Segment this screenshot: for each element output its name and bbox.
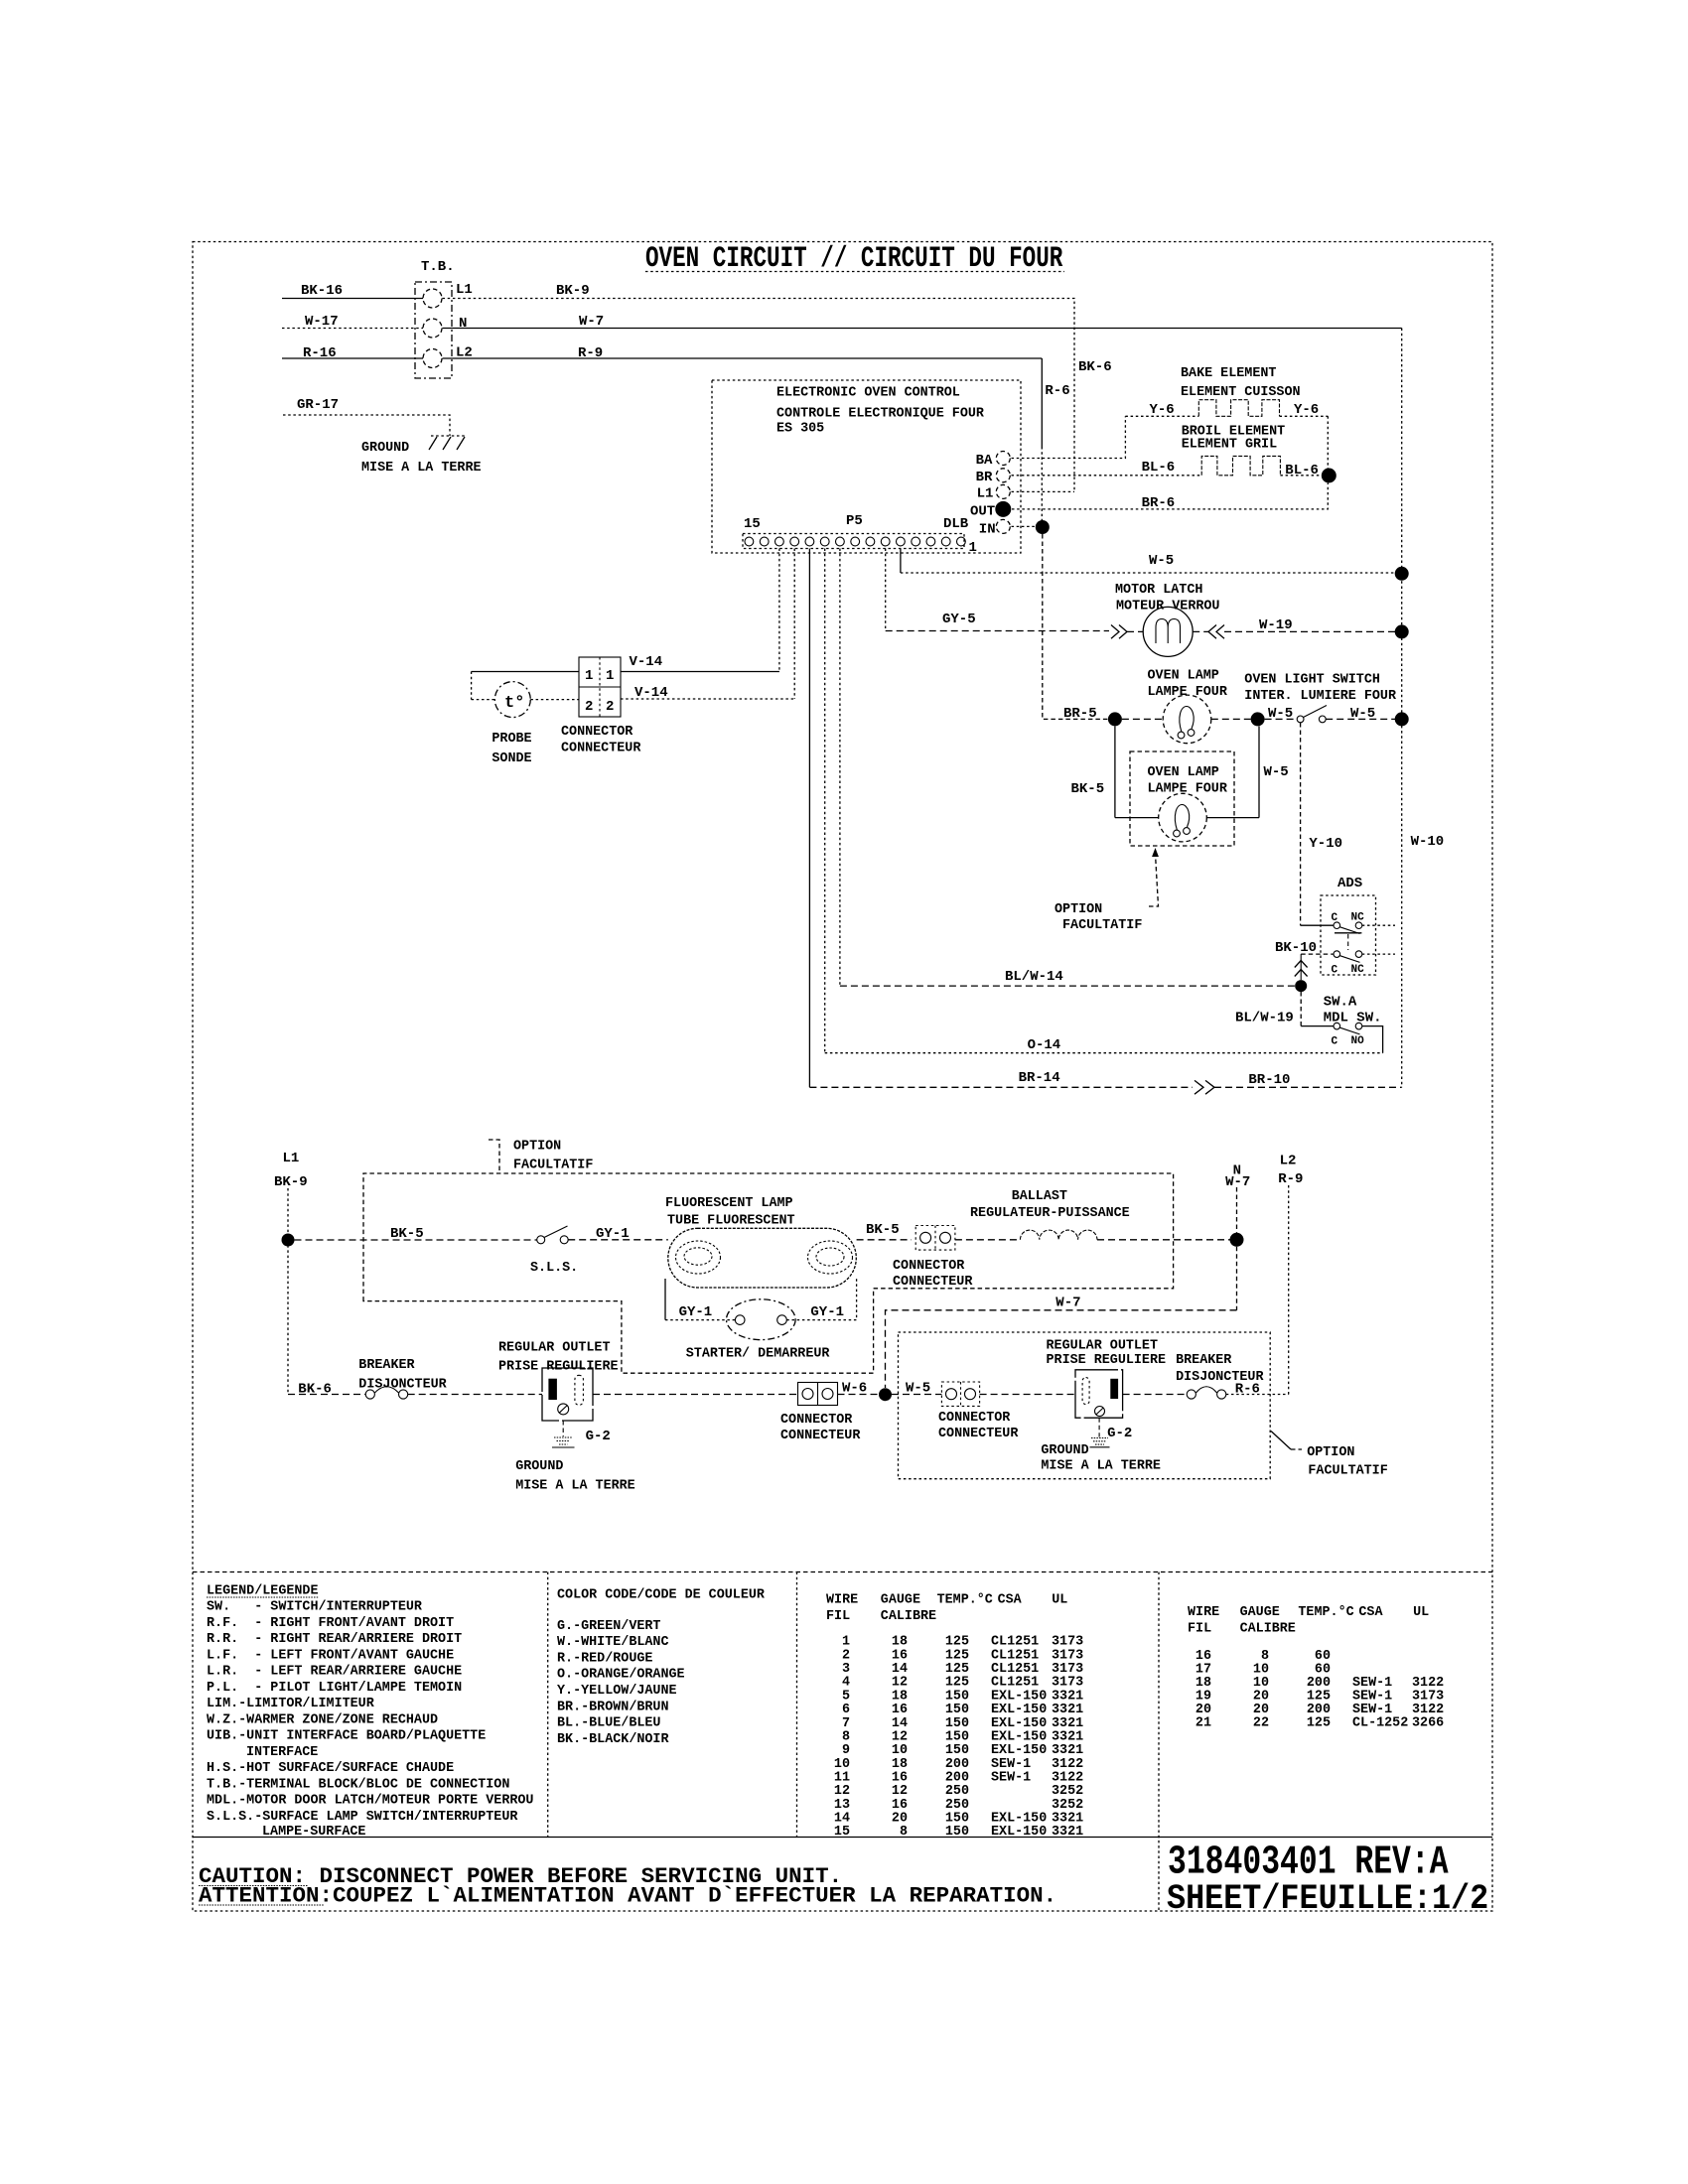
- terminal block T.B.: [415, 259, 473, 378]
- regular outlet 2 REGULAR OUTLET / PRISE REGULIERE: [1047, 1339, 1167, 1419]
- svg-text:PROBE: PROBE: [492, 732, 531, 747]
- svg-text:BK-5: BK-5: [866, 1222, 900, 1238]
- svg-text:T.B.: T.B.: [421, 259, 455, 275]
- svg-text:2: 2: [585, 699, 593, 715]
- svg-text:CONNECTOR: CONNECTOR: [561, 725, 633, 740]
- option label OPTION / FACULTATIF (upper): [489, 1140, 593, 1173]
- wire gauge table 1: [826, 1593, 1067, 1625]
- svg-text:MDL SW.: MDL SW.: [1324, 1011, 1382, 1026]
- svg-text:BALLAST: BALLAST: [1012, 1189, 1067, 1204]
- svg-text:W-7: W-7: [1055, 1296, 1080, 1311]
- connector 1 CONNECTOR / CONNECTEUR: [780, 1383, 861, 1444]
- fluorescent lamp FLUORESCENT LAMP / TUBE FLUORESCENT: [665, 1196, 856, 1288]
- wire BK-16: [282, 283, 423, 299]
- svg-text:BA: BA: [976, 453, 993, 469]
- oven lamp 2 (option) OVEN LAMP / LAMPE FOUR: [1130, 751, 1234, 846]
- svg-text:CONNECTEUR: CONNECTEUR: [780, 1429, 861, 1443]
- svg-text:MDL.-MOTOR DOOR LATCH/MOTEUR P: MDL.-MOTOR DOOR LATCH/MOTEUR PORTE VERRO…: [207, 1794, 533, 1809]
- wire ADS NC to W-10: [1362, 924, 1395, 926]
- door latch switch SW.A MDL SW.: [1301, 995, 1382, 1053]
- ADS switch 1 (C-NC): [1332, 912, 1365, 951]
- svg-text:GROUND: GROUND: [515, 1459, 563, 1474]
- svg-text:R.-RED/ROUGE: R.-RED/ROUGE: [557, 1651, 652, 1666]
- legend text LEGEND/LEGENDE: [207, 1584, 533, 1841]
- wire W-19 from latch to W-10: [1193, 617, 1395, 638]
- svg-text:GAUGE: GAUGE: [1240, 1605, 1280, 1620]
- color code table COLOR CODE/CODE DE COULEUR: [557, 1588, 766, 1747]
- svg-text:IN: IN: [979, 522, 996, 538]
- svg-text:21: 21: [1196, 1716, 1211, 1731]
- junction node BL/W-14: [1295, 980, 1307, 992]
- svg-text:P5: P5: [846, 513, 863, 529]
- svg-text:3266: 3266: [1412, 1716, 1444, 1731]
- relay ADS: [1321, 876, 1376, 975]
- svg-text:V-14: V-14: [630, 654, 663, 670]
- svg-text:Y-6: Y-6: [1150, 402, 1175, 418]
- svg-text:BK-6: BK-6: [1078, 359, 1112, 375]
- svg-text:GROUND: GROUND: [1041, 1443, 1088, 1458]
- sheet number 318403401 REV:A: [1168, 1840, 1449, 1885]
- wire GY-1: [568, 1226, 668, 1242]
- svg-text:W.-WHITE/BLANC: W.-WHITE/BLANC: [557, 1635, 669, 1650]
- svg-text:CALIBRE: CALIBRE: [1240, 1622, 1296, 1637]
- svg-text:PRISE REGULIERE: PRISE REGULIERE: [498, 1360, 619, 1375]
- svg-text:SONDE: SONDE: [492, 751, 531, 766]
- svg-text:Y-6: Y-6: [1294, 402, 1319, 418]
- svg-text:W-5: W-5: [1149, 553, 1174, 569]
- svg-text:Y.-YELLOW/JAUNE: Y.-YELLOW/JAUNE: [557, 1684, 677, 1699]
- svg-text:W-17: W-17: [305, 314, 339, 330]
- svg-text:REGULAR OUTLET: REGULAR OUTLET: [1047, 1339, 1159, 1354]
- broil element BROIL ELEMENT / ELEMENT GRIL: [1012, 425, 1323, 479]
- wire BL/W-14 from pin 9: [840, 549, 1295, 987]
- svg-text:OPTION: OPTION: [1055, 902, 1102, 917]
- T.B. terminal N: [423, 319, 442, 338]
- svg-text:BREAKER: BREAKER: [1176, 1353, 1232, 1368]
- svg-text:1: 1: [585, 668, 593, 684]
- wire gauge table 2: [1188, 1605, 1429, 1637]
- svg-text:GY-1: GY-1: [810, 1304, 844, 1320]
- ground symbol G-2 (outlet 1): [515, 1421, 635, 1494]
- svg-text:FLUORESCENT LAMP: FLUORESCENT LAMP: [665, 1196, 793, 1211]
- svg-text:CSA: CSA: [1358, 1605, 1383, 1620]
- svg-text:BK-16: BK-16: [301, 283, 343, 299]
- svg-text:G-2: G-2: [1107, 1426, 1132, 1441]
- svg-text:W-5: W-5: [1264, 764, 1289, 780]
- terminal IN: [979, 519, 1011, 537]
- wire BL/W-19: [1235, 992, 1301, 1026]
- svg-text:FIL: FIL: [1188, 1622, 1211, 1637]
- svg-text:T.B.-TERMINAL BLOCK/BLOC DE CO: T.B.-TERMINAL BLOCK/BLOC DE CONNECTION: [207, 1777, 509, 1792]
- wire ADS sw2 NC to W-10: [1362, 953, 1395, 955]
- svg-text:L.R. - LEFT REAR/ARRIERE GAUC: L.R. - LEFT REAR/ARRIERE GAUCHE: [207, 1665, 462, 1680]
- wire Y-10: [1301, 723, 1342, 925]
- wire W-7 lower run: [886, 1247, 1237, 1388]
- svg-text:L2: L2: [1280, 1154, 1297, 1169]
- svg-text:GROUND: GROUND: [361, 441, 409, 456]
- svg-text:TEMP.°C: TEMP.°C: [1298, 1605, 1353, 1620]
- svg-text:TEMP.°C: TEMP.°C: [937, 1593, 993, 1608]
- svg-text:R.R. - RIGHT REAR/ARRIERE DRO: R.R. - RIGHT REAR/ARRIERE DROIT: [207, 1632, 462, 1647]
- svg-text:OVEN LIGHT SWITCH: OVEN LIGHT SWITCH: [1244, 673, 1380, 688]
- svg-text:W-7: W-7: [579, 314, 604, 330]
- svg-text:CONNECTOR: CONNECTOR: [780, 1413, 853, 1428]
- wire GY-5 from pin 6: [886, 549, 1143, 639]
- svg-text:WIRE: WIRE: [826, 1593, 858, 1608]
- svg-text:1: 1: [606, 668, 614, 684]
- wire V-14 lower from pin 12: [621, 549, 794, 702]
- svg-text:L1: L1: [977, 486, 994, 502]
- svg-text:C: C: [1332, 1036, 1338, 1048]
- breaker 2 BREAKER / DISJONCTEUR: [1123, 1353, 1265, 1399]
- svg-text:Y-10: Y-10: [1309, 836, 1342, 852]
- wire probe leads: [472, 672, 579, 700]
- electronic oven control ES 305 box: [712, 380, 1021, 553]
- svg-text:P.L. - PILOT LIGHT/LAMPE TEMO: P.L. - PILOT LIGHT/LAMPE TEMOIN: [207, 1681, 462, 1696]
- ballast BALLAST / REGULATEUR-PUISSANCE: [955, 1189, 1230, 1240]
- oven light switch OVEN LIGHT SWITCH / INTER. LUMIERE FOUR: [1244, 673, 1397, 723]
- wire V-14 upper from pin 13: [621, 549, 779, 672]
- svg-text:S.L.S.-SURFACE LAMP SWITCH/INT: S.L.S.-SURFACE LAMP SWITCH/INTERRUPTEUR: [207, 1810, 518, 1825]
- svg-text:COLOR CODE/CODE DE COULEUR: COLOR CODE/CODE DE COULEUR: [557, 1588, 766, 1603]
- svg-text:NC: NC: [1351, 964, 1365, 976]
- svg-text:MISE A LA TERRE: MISE A LA TERRE: [1041, 1459, 1161, 1474]
- wire BK-5 to ballast connector: [857, 1222, 912, 1240]
- wire lamp1 leads: [1122, 718, 1251, 720]
- svg-text:CONNECTEUR: CONNECTEUR: [893, 1275, 973, 1290]
- svg-text:BL/W-14: BL/W-14: [1005, 969, 1063, 985]
- terminal BA: [976, 452, 1011, 470]
- svg-text:OVEN LAMP: OVEN LAMP: [1148, 765, 1219, 780]
- svg-text:CONNECTOR: CONNECTOR: [938, 1411, 1011, 1426]
- wire W-7 from N to right bus: [443, 314, 1402, 330]
- svg-text:OPTION: OPTION: [513, 1140, 561, 1155]
- wire BR-14 / BR-10 from pin 11: [809, 549, 1401, 1095]
- svg-text:G-2: G-2: [586, 1429, 611, 1444]
- svg-text:CL-1252: CL-1252: [1352, 1716, 1408, 1731]
- svg-text:UL: UL: [1413, 1605, 1429, 1620]
- svg-text:INTERFACE: INTERFACE: [246, 1745, 318, 1760]
- svg-text:FACULTATIF: FACULTATIF: [1308, 1464, 1387, 1479]
- svg-text:LAMPE FOUR: LAMPE FOUR: [1148, 685, 1228, 700]
- svg-text:CONNECTOR: CONNECTOR: [893, 1259, 965, 1274]
- svg-text:REGULAR OUTLET: REGULAR OUTLET: [498, 1341, 611, 1356]
- terminal L1: [977, 484, 1011, 501]
- wire W-10 vertical bus: [1402, 329, 1445, 1088]
- wire BK-5 (lower): [295, 1226, 537, 1242]
- temperature probe PROBE / SONDE: [492, 682, 531, 766]
- svg-text:ES 305: ES 305: [776, 422, 824, 437]
- wire BR-6 from OUT: [1012, 483, 1328, 512]
- svg-text:BR-5: BR-5: [1063, 706, 1097, 722]
- svg-text:BR: BR: [976, 470, 993, 485]
- svg-text:LEGEND/LEGENDE: LEGEND/LEGENDE: [207, 1584, 319, 1599]
- svg-text:318403401 REV:A: 318403401 REV:A: [1168, 1840, 1449, 1885]
- svg-text:S.L.S.: S.L.S.: [530, 1261, 578, 1276]
- svg-text:W-7: W-7: [1225, 1174, 1250, 1190]
- junction node BR-5: [1108, 712, 1122, 726]
- svg-text:BL-6: BL-6: [1142, 460, 1176, 476]
- svg-text:CALIBRE: CALIBRE: [881, 1609, 936, 1624]
- svg-text:BR.-BROWN/BRUN: BR.-BROWN/BRUN: [557, 1700, 669, 1714]
- connector strip P5: [743, 513, 977, 556]
- wire W-17: [282, 314, 423, 330]
- junction node W-5 / W-10: [1395, 567, 1409, 581]
- svg-text:OPTION: OPTION: [1307, 1445, 1354, 1460]
- svg-text:REGULATEUR-PUISSANCE: REGULATEUR-PUISSANCE: [970, 1206, 1130, 1221]
- regular outlet 1 REGULAR OUTLET / PRISE REGULIERE: [498, 1341, 619, 1422]
- node L2 / R-9 (lower section): [1278, 1154, 1303, 1395]
- breaker 1 BREAKER / DISJONCTEUR: [358, 1358, 447, 1399]
- svg-text:O.-ORANGE/ORANGE: O.-ORANGE/ORANGE: [557, 1668, 685, 1683]
- T.B. terminal L1: [423, 289, 442, 308]
- svg-text:W-19: W-19: [1259, 617, 1293, 633]
- svg-text:ELECTRONIC OVEN CONTROL: ELECTRONIC OVEN CONTROL: [776, 386, 960, 401]
- svg-text:G.-GREEN/VERT: G.-GREEN/VERT: [557, 1619, 660, 1634]
- svg-text:EXL-150: EXL-150: [991, 1825, 1047, 1840]
- svg-text:ELEMENT GRIL: ELEMENT GRIL: [1182, 438, 1277, 453]
- svg-text:BK-5: BK-5: [1071, 781, 1105, 797]
- wire IN to R-6 junction: [1012, 525, 1038, 527]
- svg-text:BK-9: BK-9: [274, 1174, 308, 1190]
- starter STARTER/ DEMARREUR: [686, 1299, 831, 1362]
- svg-text:15: 15: [744, 516, 761, 532]
- wire W-5 from pin 5: [901, 549, 1395, 574]
- svg-text:UIB.-UNIT INTERFACE BOARD/PLAQ: UIB.-UNIT INTERFACE BOARD/PLAQUETTE: [207, 1729, 486, 1744]
- svg-text:GY-5: GY-5: [942, 612, 976, 627]
- svg-text:BL/W-19: BL/W-19: [1235, 1011, 1294, 1026]
- wire BK-9 from L1 to BK-6 vertical: [443, 283, 1112, 491]
- wire connector2 to outlet2: [980, 1394, 1075, 1396]
- svg-text:GR-17: GR-17: [297, 397, 339, 413]
- svg-text:L1: L1: [283, 1151, 300, 1166]
- svg-text:L.F. - LEFT FRONT/AVANT GAUCH: L.F. - LEFT FRONT/AVANT GAUCHE: [207, 1648, 454, 1663]
- wire W-5 (lower): [892, 1381, 941, 1397]
- svg-text:1: 1: [969, 540, 977, 556]
- wire L1 to BK-6: [1012, 490, 1075, 492]
- svg-text:BK.-BLACK/NOIR: BK.-BLACK/NOIR: [557, 1732, 669, 1747]
- junction node IN / R-6: [1036, 520, 1050, 534]
- wire R-6 (lower): [1226, 1382, 1289, 1398]
- oven lamp 1 OVEN LAMP / LAMPE FOUR: [1063, 669, 1228, 744]
- svg-text:CONTROLE ELECTRONIQUE FOUR: CONTROLE ELECTRONIQUE FOUR: [776, 407, 985, 422]
- svg-text:INTER. LUMIERE FOUR: INTER. LUMIERE FOUR: [1244, 689, 1397, 704]
- svg-text:STARTER/ DEMARREUR: STARTER/ DEMARREUR: [686, 1347, 831, 1362]
- wire R-6 down to BR-5: [1043, 534, 1108, 719]
- ground symbol G-2 (outlet 2): [1041, 1418, 1161, 1473]
- option region box (outlet 2): [899, 1332, 1271, 1479]
- sheet label SHEET/FEUILLE:1/2: [1167, 1880, 1488, 1920]
- svg-text:W.Z.-WARMER ZONE/ZONE RECHAUD: W.Z.-WARMER ZONE/ZONE RECHAUD: [207, 1712, 438, 1727]
- svg-text:LAMPE-SURFACE: LAMPE-SURFACE: [262, 1825, 365, 1840]
- wire BA to bake element: [1012, 416, 1126, 458]
- svg-text:SEW-1: SEW-1: [991, 1771, 1031, 1786]
- svg-text:22: 22: [1253, 1716, 1269, 1731]
- svg-text:OVEN LAMP: OVEN LAMP: [1148, 669, 1219, 684]
- svg-text:W-10: W-10: [1411, 834, 1445, 850]
- svg-text:CONNECTEUR: CONNECTEUR: [938, 1427, 1019, 1441]
- junction node BK-9 / BK-5: [282, 1234, 295, 1247]
- svg-text:CSA: CSA: [998, 1593, 1023, 1608]
- wire W-6: [838, 1381, 880, 1397]
- connector 2 CONNECTOR / CONNECTEUR: [938, 1382, 1019, 1441]
- junction node W-19 / W-10: [1395, 624, 1409, 638]
- junction node W-6 / W-5 / W-7: [879, 1388, 892, 1401]
- svg-text:125: 125: [1307, 1716, 1331, 1731]
- svg-text:LIM.-LIMITOR/LIMITEUR: LIM.-LIMITOR/LIMITEUR: [207, 1697, 375, 1711]
- ballast connector CONNECTOR / CONNECTEUR: [893, 1226, 973, 1291]
- svg-text:O-14: O-14: [1028, 1037, 1061, 1053]
- svg-text:N: N: [459, 316, 467, 332]
- svg-text:FACULTATIF: FACULTATIF: [1062, 918, 1142, 933]
- wire O-14 from pin 10: [825, 549, 1383, 1054]
- svg-text:BR-10: BR-10: [1248, 1072, 1290, 1088]
- wire BK-6 (lower left): [288, 1382, 365, 1398]
- svg-text:BL.-BLUE/BLEU: BL.-BLUE/BLEU: [557, 1716, 660, 1731]
- svg-text:ELEMENT CUISSON: ELEMENT CUISSON: [1181, 385, 1301, 400]
- svg-text:8: 8: [900, 1825, 908, 1840]
- svg-text:SHEET/FEUILLE:1/2: SHEET/FEUILLE:1/2: [1167, 1880, 1488, 1920]
- svg-text:SW. - SWITCH/INTERRUPTEUR: SW. - SWITCH/INTERRUPTEUR: [207, 1600, 423, 1615]
- svg-text:MISE A LA TERRE: MISE A LA TERRE: [515, 1479, 635, 1494]
- svg-text:ATTENTION:COUPEZ L`ALIMENTATIO: ATTENTION:COUPEZ L`ALIMENTATION AVANT D`…: [199, 1883, 1056, 1909]
- junction node BL-6: [1322, 469, 1336, 483]
- surface lamp switch S.L.S.: [530, 1226, 578, 1276]
- svg-text:TUBE FLUORESCENT: TUBE FLUORESCENT: [667, 1214, 795, 1229]
- svg-text:OVEN CIRCUIT // CIRCUIT DU FOU: OVEN CIRCUIT // CIRCUIT DU FOUR: [645, 241, 1063, 275]
- title OVEN CIRCUIT // CIRCUIT DU FOUR: [645, 241, 1064, 275]
- svg-text:R-9: R-9: [1278, 1171, 1303, 1187]
- svg-text:3321: 3321: [1052, 1825, 1083, 1840]
- svg-text:MOTOR LATCH: MOTOR LATCH: [1115, 583, 1202, 598]
- svg-text:WIRE: WIRE: [1188, 1605, 1219, 1620]
- svg-text:150: 150: [945, 1825, 969, 1840]
- svg-text:FACULTATIF: FACULTATIF: [513, 1159, 593, 1173]
- option region box (fluorescent circuit): [363, 1173, 1174, 1373]
- svg-text:BREAKER: BREAKER: [358, 1358, 415, 1373]
- bake element BAKE ELEMENT / ELEMENT CUISSON: [1125, 366, 1328, 469]
- wire outlet1 to connector1: [593, 1394, 798, 1396]
- svg-text:SW.A: SW.A: [1324, 995, 1357, 1011]
- wire GR-17 to ground: [283, 397, 450, 436]
- svg-text:15: 15: [834, 1825, 850, 1840]
- wire BK-10: [1275, 940, 1334, 980]
- svg-text:LAMPE FOUR: LAMPE FOUR: [1148, 782, 1228, 797]
- node L1 / BK-9 (lower section): [274, 1151, 308, 1395]
- svg-text:L1: L1: [456, 282, 473, 298]
- terminal OUT: [970, 501, 1011, 520]
- svg-text:OUT: OUT: [970, 504, 995, 520]
- svg-text:GAUGE: GAUGE: [881, 1593, 920, 1608]
- svg-text:PRISE REGULIERE: PRISE REGULIERE: [1047, 1353, 1167, 1368]
- svg-text:GY-1: GY-1: [679, 1304, 713, 1320]
- T.B. terminal L2: [423, 349, 442, 368]
- wire R-9 from L2: [443, 345, 1070, 527]
- probe connector CONNECTOR / CONNECTEUR: [561, 657, 641, 756]
- svg-text:2: 2: [606, 699, 614, 715]
- svg-text:BAKE ELEMENT: BAKE ELEMENT: [1181, 366, 1276, 381]
- wire GY-1 starter leads: [665, 1279, 857, 1320]
- junction node lamp1 / W-5: [1251, 712, 1265, 726]
- svg-text:MISE A LA TERRE: MISE A LA TERRE: [361, 461, 482, 476]
- node N / W-7 (lower section): [1225, 1163, 1250, 1233]
- ground symbol (top left): [361, 436, 482, 476]
- legend table frame: [193, 1572, 1492, 1912]
- terminal BR: [976, 469, 1011, 485]
- svg-text:BR-14: BR-14: [1019, 1070, 1060, 1086]
- svg-text:CONNECTEUR: CONNECTEUR: [561, 742, 641, 756]
- svg-text:BL-6: BL-6: [1285, 463, 1319, 478]
- wire lamp2 leads: [1115, 726, 1289, 817]
- wire breaker1 to outlet1: [408, 1394, 542, 1396]
- wire BK-5 vertical: [1071, 726, 1115, 817]
- wire R-16: [282, 345, 423, 361]
- caution note: [199, 1863, 1056, 1909]
- svg-text:BK-9: BK-9: [556, 283, 590, 299]
- svg-text:DLB: DLB: [943, 516, 969, 532]
- svg-text:R.F. - RIGHT FRONT/AVANT DROI: R.F. - RIGHT FRONT/AVANT DROIT: [207, 1616, 454, 1631]
- svg-text:C: C: [1332, 965, 1338, 977]
- junction node ballast / W-7: [1230, 1233, 1244, 1247]
- svg-text:FIL: FIL: [826, 1609, 850, 1624]
- svg-text:H.S.-HOT SURFACE/SURFACE CHAUD: H.S.-HOT SURFACE/SURFACE CHAUDE: [207, 1761, 454, 1776]
- svg-text:R-6: R-6: [1045, 383, 1069, 399]
- svg-text:NO: NO: [1351, 1035, 1365, 1047]
- svg-text:UL: UL: [1052, 1593, 1067, 1608]
- svg-text:ADS: ADS: [1337, 876, 1362, 891]
- option label OPTION / FACULTATIF (lower right): [1271, 1432, 1388, 1479]
- junction node switch / W-10: [1395, 712, 1409, 726]
- ADS switch 2 (C-NC): [1332, 951, 1365, 977]
- svg-text:t°: t°: [504, 694, 524, 713]
- option label for lamp2 OPTION / FACULTATIF: [1055, 848, 1159, 933]
- motor latch MOTOR LATCH / MOTEUR VERROU: [1115, 583, 1219, 656]
